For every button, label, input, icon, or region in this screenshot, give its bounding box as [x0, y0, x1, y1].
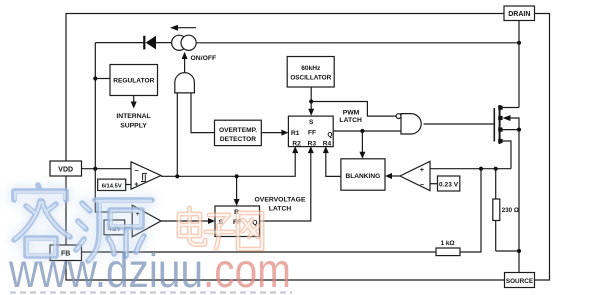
wire AND gate U4 output up to current source [184, 58, 186, 73]
arrowhead into blanking right [385, 173, 392, 179]
svg-text:S: S [309, 119, 314, 126]
wire to R input of overvoltage latch [236, 176, 238, 201]
svg-text:LATCH: LATCH [269, 206, 292, 213]
watermark url www.dziuu.com [8, 245, 291, 295]
svg-text:+: + [420, 167, 424, 174]
wire overtemp to R1 of PWM latch [261, 132, 283, 134]
junction VDD node [93, 167, 97, 171]
svg-text:6/14.5V: 6/14.5V [102, 184, 122, 190]
junction U1 output / OV latch R [235, 174, 239, 178]
arrowhead into R2 [292, 146, 298, 153]
current source I1 [172, 35, 197, 50]
reference 4.2V [104, 220, 125, 235]
wire 4.2V to comparator minus [125, 227, 133, 229]
reference 6/14.5V [98, 179, 126, 190]
junction sense / 1k [479, 167, 483, 171]
wire current source to drain rail [196, 42, 519, 44]
diode D1 [143, 36, 156, 50]
svg-text:DETECTOR: DETECTOR [220, 136, 256, 143]
junction sense / 230ohm [494, 167, 498, 171]
svg-text:SUPPLY: SUPPLY [120, 123, 147, 130]
junction U1 output / AND input [175, 174, 179, 178]
arrow internal supply [131, 96, 137, 109]
svg-text:REGULATOR: REGULATOR [113, 78, 154, 85]
svg-text:OSCILLATOR: OSCILLATOR [290, 74, 331, 81]
wire oscillator branch to AND gate U5 inverted input [311, 102, 396, 117]
comparator U6 overvoltage [132, 205, 161, 237]
wire MOSFET source lead [501, 141, 511, 169]
svg-text:OVERTEMP.: OVERTEMP. [219, 127, 257, 134]
frame outline [66, 14, 550, 281]
svg-text:R4: R4 [323, 140, 332, 147]
svg-text:OVERVOLTAGE: OVERVOLTAGE [255, 197, 306, 204]
svg-text:+: + [134, 182, 138, 189]
wire top supply to diode [95, 42, 143, 44]
svg-text:0.23 V: 0.23 V [439, 181, 459, 188]
svg-text:1 kΩ: 1 kΩ [440, 240, 454, 247]
watermark halo blue [14, 191, 152, 261]
arrowhead into R4 [323, 146, 329, 153]
reference 0.23V [438, 176, 460, 191]
resistor R2 1k [436, 248, 460, 256]
label INTERNAL SUPPLY [116, 113, 150, 130]
overvoltage latch U7 [215, 206, 260, 237]
wire comparator U6 output to S of OV latch [161, 220, 211, 222]
wire current sense line [430, 168, 511, 170]
wire DRAIN pin down to MOSFET drain [518, 21, 520, 108]
label PWM LATCH [339, 109, 362, 124]
regulator block [110, 65, 158, 96]
wire VDD branch to comparator U6 [95, 169, 132, 212]
svg-text:VDD: VDD [58, 167, 73, 174]
resistor R1 230ohm [493, 169, 519, 251]
wire gate drive to MOSFET gate [424, 123, 495, 125]
and-gate U4 on/off control [175, 73, 195, 93]
wire comparator U3 output to blanking [391, 175, 400, 177]
blanking block [341, 159, 385, 190]
svg-text:−: − [420, 182, 424, 189]
wire VDD to comparator U1 minus input [82, 168, 132, 170]
svg-text:www.dziuu.com: www.dziuu.com [8, 245, 291, 295]
svg-text:R2: R2 [292, 140, 301, 147]
watermark bottom fringe [10, 291, 292, 294]
SOURCE pin [505, 273, 535, 288]
svg-text:SOURCE: SOURCE [506, 278, 534, 285]
wire AND U4 right input from overtemp detector [191, 93, 215, 133]
wire MOSFET stub3 [501, 129, 519, 131]
wire comparator U1 output line [161, 151, 295, 177]
junction source rail bottom [517, 249, 521, 253]
svg-text:R3: R3 [308, 140, 317, 147]
label OVERVOLTAGE LATCH [255, 197, 306, 213]
svg-text:230 Ω: 230 Ω [502, 207, 519, 214]
svg-text:R1: R1 [291, 130, 300, 137]
wire blanking to R4 of PWM latch [326, 151, 341, 177]
svg-text:LATCH: LATCH [339, 117, 362, 124]
junction drain rail [517, 41, 521, 45]
VDD pin [50, 161, 82, 176]
comparator U3 current limit [400, 161, 430, 190]
svg-text:PWM: PWM [343, 109, 360, 116]
wire Q node down to blanking [361, 131, 363, 155]
svg-text:−: − [135, 168, 139, 175]
svg-text:ON/OFF: ON/OFF [191, 55, 217, 62]
svg-text:Q: Q [327, 131, 332, 138]
wire PWM latch Q output to AND gate U5 [333, 130, 401, 132]
svg-text:FF: FF [308, 130, 316, 137]
junction oscillator node [309, 99, 313, 103]
FB pin [50, 245, 82, 261]
wire AND U4 left input from comparator U1 output [176, 93, 178, 176]
MOSFET Q1 [494, 105, 510, 144]
wire vertical VDD rail up to top supply wire [94, 43, 96, 169]
arrowhead into R1 [281, 130, 288, 136]
svg-text:BLANKING: BLANKING [345, 173, 380, 180]
junction regulator tap [93, 76, 97, 80]
overtemp detector block [215, 120, 262, 145]
wire diode to current source [156, 42, 172, 44]
junction body/stub3 [517, 128, 521, 132]
comparator U1 vdd undervoltage [131, 162, 161, 189]
wire FB to 1k resistor [82, 251, 437, 253]
wire MOSFET body to source rail [509, 118, 519, 273]
arrow current direction [170, 25, 196, 31]
arrowhead into S of PWM latch [308, 109, 314, 116]
oscillator block [287, 57, 334, 88]
wire MOSFET drain stub [501, 107, 519, 109]
arrowhead into R3 [308, 146, 314, 153]
wire 0.23V to comparator minus [430, 183, 438, 185]
DRAIN pin [504, 6, 535, 21]
svg-text:60kHz: 60kHz [301, 65, 321, 72]
watermark char yuan [76, 200, 152, 261]
watermark char rong [14, 185, 70, 256]
junction Q output node [360, 129, 364, 133]
wire 1k to sense node [460, 169, 481, 252]
and-gate U5 output stage [396, 114, 421, 134]
wire 6/14.5V to comparator plus [126, 184, 131, 186]
wire tap to regulator [95, 78, 110, 80]
arrowhead into R of OV latch [234, 199, 240, 206]
wire OV latch Q to R3 of PWM latch [260, 151, 311, 221]
watermark chars dianziwang [179, 208, 262, 249]
svg-text:INTERNAL: INTERNAL [116, 113, 150, 120]
svg-text:DRAIN: DRAIN [508, 11, 530, 18]
arrowhead into current source [182, 52, 188, 59]
wire oscillator output [310, 87, 312, 111]
arrowhead into S [208, 218, 215, 224]
pwm latch U2 [288, 116, 333, 147]
arrowhead into blanking top [359, 152, 365, 159]
